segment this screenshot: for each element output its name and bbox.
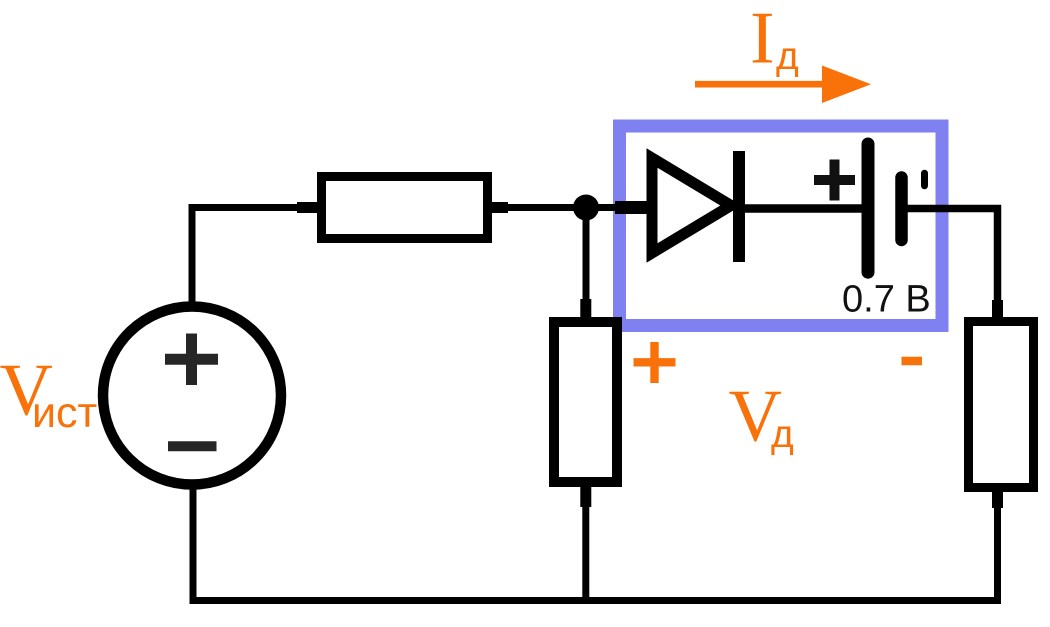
- wire: middle resistor bottom stub: [580, 486, 591, 507]
- label + of Vд (orange): [634, 342, 676, 383]
- node A (junction dot): [573, 195, 599, 221]
- battery minus tick: [921, 173, 928, 186]
- svg-text:I: I: [750, 0, 775, 80]
- svg-text:д: д: [776, 35, 799, 78]
- wire: diode anode terminal stub: [615, 201, 649, 214]
- svg-text:ист: ист: [32, 389, 97, 437]
- battery plus sign (black): [814, 160, 855, 201]
- diode model boundary box (blue): [620, 126, 943, 326]
- wire: R to node A: [506, 204, 590, 211]
- source minus sign: [168, 441, 217, 451]
- label - of Vд (orange): [902, 357, 923, 365]
- current arrow Iд (orange): [695, 81, 830, 88]
- wire: middle resistor to bottom rail: [582, 505, 589, 601]
- wire: cathode to battery: [745, 204, 866, 213]
- resistor R2 (right vertical): [969, 322, 1034, 488]
- wire: bottom rail: [193, 484, 998, 601]
- battery negative plate (short bar): [895, 178, 908, 241]
- battery positive plate (long bar): [862, 144, 875, 272]
- wire: node A down to middle resistor: [583, 208, 590, 302]
- wire: middle resistor top stub: [580, 299, 591, 318]
- diode D1 triangle: [652, 158, 731, 253]
- wire: battery to right resistor: [907, 209, 998, 303]
- wire: node A to diode anode: [586, 204, 620, 211]
- resistor R1 (middle vertical): [554, 322, 617, 482]
- wire: R right terminal stub: [487, 202, 508, 213]
- svg-text:д: д: [771, 413, 794, 456]
- wire: R left terminal stub: [297, 202, 319, 213]
- svg-text:0.7 В: 0.7 В: [842, 279, 931, 321]
- resistor R (top horizontal): [322, 177, 488, 239]
- wire: right resistor bottom stub: [992, 491, 1003, 508]
- source plus sign: [165, 334, 218, 386]
- voltage source Vист circle: [103, 307, 281, 485]
- diode D1 cathode bar: [733, 151, 745, 262]
- wire: right resistor top stub: [992, 300, 1003, 318]
- wire: source top to resistor R: [192, 208, 299, 303]
